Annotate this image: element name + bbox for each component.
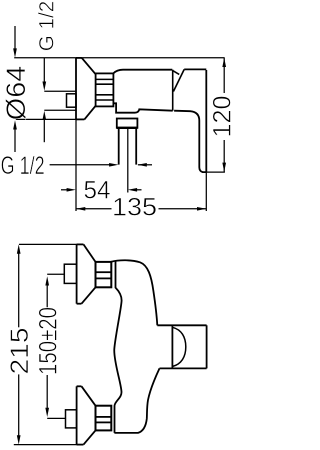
upper flange [77, 244, 96, 303]
extension line L2 [44, 90, 76, 92]
knurled nut (side view) [96, 73, 114, 106]
wall flange (side view) [76, 58, 96, 120]
svg-text:G 1/2: G 1/2 [1, 152, 45, 180]
upper wall pipe stub [64, 264, 76, 283]
shower hose collar [117, 119, 138, 128]
extension line L4 [16, 118, 85, 120]
dim 54 left arrow [61, 189, 68, 191]
dim 135 line left [76, 208, 112, 210]
lower flange [77, 386, 96, 444]
lower union nut [96, 406, 112, 431]
lower wall pipe stub [66, 410, 77, 428]
shower hose pipe [119, 128, 137, 165]
dim 150±20 vertical [46, 285, 48, 409]
dim 135 line right [159, 208, 207, 210]
dim arrow G1/2-left upper (A1) [14, 26, 16, 50]
dim 215 vertical [18, 253, 20, 436]
extension line bottom [14, 444, 84, 446]
svg-text:Ø64: Ø64 [1, 66, 31, 121]
right arrow of G1/2 pipe [138, 164, 152, 166]
handle (side view) [174, 69, 206, 172]
extension line top (L1) [14, 57, 224, 59]
extension line 54-right [127, 128, 129, 193]
handle lever notch (side view) [173, 69, 185, 110]
svg-text:215: 215 [6, 328, 34, 375]
dim 120 vertical [223, 58, 225, 93]
extension line upper center [47, 273, 64, 275]
svg-text:135: 135 [112, 193, 157, 221]
svg-text:120: 120 [209, 96, 233, 138]
svg-text:150±20: 150±20 [35, 307, 63, 375]
extension line top [19, 243, 84, 245]
dim arrow Ø64 lower (A4) [14, 129, 16, 153]
dim arrow G1/2 upper (A2) [43, 58, 45, 83]
upper union nut [96, 262, 112, 287]
extension line 135-right [205, 172, 207, 211]
leader line G1/2 with arrow [50, 164, 111, 166]
knob dome arc [172, 327, 185, 366]
dim arrow G1/2 lower (A3) [43, 119, 45, 142]
extension line 120-bottom [206, 171, 225, 173]
valve body (side view) [113, 70, 172, 113]
knob (front view) [157, 325, 206, 368]
svg-text:G 1/2: G 1/2 [35, 1, 59, 51]
extension line left vertical V1 [75, 119, 77, 211]
wall pipe stub (side view) [67, 94, 77, 107]
svg-text:54: 54 [84, 176, 111, 204]
mixer body (front view) [111, 260, 159, 433]
extension line L3 [44, 109, 76, 111]
extension line lower center [47, 417, 65, 419]
dim 54 right arrow [136, 189, 142, 191]
